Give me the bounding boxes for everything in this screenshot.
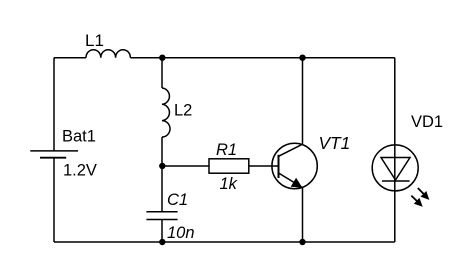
wire emitter lead (302, 188, 304, 242)
wire capacitor bottom lead (161, 220, 163, 243)
wire left rail lower (53, 158, 55, 242)
wire top rail left segment (54, 57, 86, 59)
svg-text:VD1: VD1 (411, 113, 443, 131)
node dot middle (159, 163, 165, 169)
wire right rail (394, 58, 396, 242)
wire L2 top lead (161, 58, 163, 88)
transistor VT1 circle (272, 143, 317, 188)
LED arrow head upper (421, 191, 430, 200)
wire R1 to base (249, 165, 278, 167)
resistor R1 body (209, 159, 249, 173)
LED VD1 emission arrow lower (411, 196, 417, 202)
capacitor C1 top plate (146, 211, 177, 213)
LED VD1 circle (372, 145, 418, 191)
node dot top L2 (159, 55, 165, 61)
wire L2 to capacitor (161, 137, 163, 212)
svg-text:L2: L2 (174, 102, 192, 120)
transistor VT1 collector diagonal (279, 144, 303, 156)
wire collector lead (302, 58, 304, 145)
wire left rail upper (53, 58, 55, 151)
inductor L1 (86, 50, 130, 58)
svg-text:L1: L1 (85, 31, 104, 50)
svg-text:1.2V: 1.2V (63, 162, 97, 180)
svg-text:Bat1: Bat1 (62, 128, 96, 146)
LED VD1 cathode bar (382, 180, 410, 182)
battery Bat1 long plate (30, 150, 78, 152)
transistor VT1 emitter arrowhead (291, 178, 303, 188)
svg-text:C1: C1 (167, 191, 188, 209)
inductor L2 (162, 88, 170, 137)
node dot top collector (299, 55, 305, 61)
node dot bottom capacitor (159, 239, 165, 245)
LED VD1 emission arrow upper (418, 188, 424, 194)
wire node to R1 (162, 165, 209, 167)
node dot bottom emitter (299, 239, 305, 245)
svg-text:1k: 1k (220, 175, 238, 193)
transistor VT1 emitter diagonal (279, 173, 303, 188)
wire bottom rail (54, 241, 395, 243)
svg-text:VT1: VT1 (319, 133, 351, 153)
svg-text:R1: R1 (216, 141, 237, 159)
transistor VT1 base bar (278, 155, 280, 178)
wire top rail right segment (303, 57, 395, 59)
capacitor C1 bottom plate (146, 219, 177, 221)
battery Bat1 short plate (40, 157, 66, 159)
LED arrow head lower (414, 198, 423, 207)
LED VD1 triangle (381, 158, 410, 181)
wire top rail middle segment (130, 57, 302, 59)
svg-text:10n: 10n (167, 224, 195, 242)
